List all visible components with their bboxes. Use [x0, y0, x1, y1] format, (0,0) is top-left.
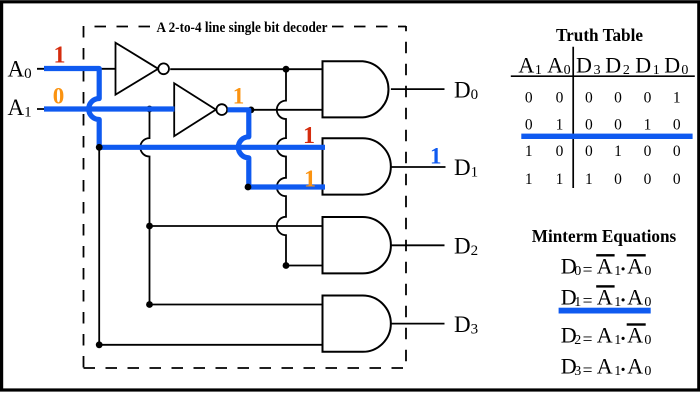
- wire D0 output: [391, 88, 445, 90]
- truth table row 2: [525, 117, 681, 134]
- AND gate G0 (D0): [323, 61, 389, 117]
- svg-text:D: D: [605, 53, 621, 78]
- svg-text:0: 0: [644, 143, 652, 160]
- blue wire: nA1 value path to D1 bottom input: [228, 110, 326, 187]
- truth table row 2 blue highlight bar: [521, 134, 692, 139]
- svg-text:0: 0: [556, 90, 564, 107]
- svg-text:A: A: [597, 285, 613, 310]
- wire A0 input: [37, 68, 116, 70]
- svg-text:A 2-to-4 line single bit decod: A 2-to-4 line single bit decoder: [157, 20, 328, 36]
- svg-text:0: 0: [525, 117, 533, 134]
- AND gate G1 (D1): [323, 138, 391, 194]
- truth table row 4: [525, 171, 681, 188]
- svg-text:1: 1: [54, 43, 66, 69]
- svg-text:1: 1: [304, 167, 316, 193]
- svg-text:1: 1: [556, 171, 564, 188]
- dashed enclosure box: [84, 26, 407, 368]
- svg-text:0: 0: [585, 143, 593, 160]
- svg-text:1: 1: [585, 171, 593, 188]
- inverter U2 (NOT gate on A1): [174, 83, 227, 136]
- svg-text:0: 0: [556, 143, 564, 160]
- svg-text:0: 0: [644, 364, 651, 379]
- svg-text:0: 0: [614, 171, 622, 188]
- svg-text:A: A: [547, 53, 563, 78]
- svg-text:0: 0: [574, 264, 581, 279]
- svg-text:1: 1: [303, 123, 315, 149]
- wire A1 rail vertical with hop: [140, 109, 322, 305]
- svg-text:0: 0: [673, 117, 681, 134]
- svg-text:0: 0: [644, 333, 651, 348]
- svg-text:Minterm Equations: Minterm Equations: [532, 226, 677, 246]
- svg-text:0: 0: [673, 143, 681, 160]
- svg-text:·: ·: [620, 328, 627, 350]
- svg-text:0: 0: [673, 171, 681, 188]
- wire A1 input: [37, 108, 174, 110]
- svg-text:1: 1: [556, 117, 564, 134]
- svg-text:A: A: [627, 285, 643, 310]
- svg-text:1: 1: [673, 90, 681, 107]
- svg-text:3: 3: [574, 364, 581, 379]
- svg-text:2: 2: [574, 333, 581, 348]
- junction dot under blue on A1 line: [146, 106, 153, 113]
- svg-text:0: 0: [614, 90, 622, 107]
- svg-text:1: 1: [614, 143, 622, 160]
- svg-text:=: =: [583, 329, 593, 349]
- truth table row 1: [525, 90, 681, 107]
- equation D0 = nA1 . nA0: [561, 253, 652, 280]
- svg-text:1: 1: [525, 171, 533, 188]
- svg-text:0: 0: [644, 90, 652, 107]
- junction dot A0 rail bottom corner: [96, 341, 103, 348]
- svg-text:=: =: [583, 360, 593, 380]
- wire NOT1 output (nA0 row): [170, 68, 322, 70]
- wire A1 to D2 top input: [150, 225, 323, 227]
- blue wire: A1 input segment: [44, 106, 175, 111]
- svg-text:=: =: [583, 260, 593, 280]
- svg-text:0: 0: [644, 264, 651, 279]
- junction dot under blue on nA1 line: [248, 107, 255, 114]
- junction dot at nA1 rail corner: [245, 184, 252, 191]
- svg-text:0: 0: [585, 90, 593, 107]
- svg-text:1: 1: [233, 84, 245, 109]
- equation D1 = nA1 . A0: [561, 285, 652, 312]
- svg-text:1: 1: [644, 117, 652, 134]
- svg-text:0: 0: [585, 117, 593, 134]
- truth table row 3: [525, 143, 681, 160]
- svg-text:A: A: [518, 53, 534, 78]
- svg-text:1: 1: [525, 143, 533, 160]
- equation D3 = A1 . A0: [561, 354, 652, 381]
- junction dot at A0 rail corner: [96, 144, 103, 151]
- junction dot nA0 rail bottom corner: [283, 262, 290, 269]
- svg-text:0: 0: [53, 83, 65, 108]
- svg-text:A: A: [597, 253, 613, 278]
- wire D1 output: [391, 166, 446, 168]
- inverter U1 (NOT gate on A0): [116, 43, 170, 95]
- wire NOT2 output (nA1 row): [228, 109, 323, 111]
- svg-text:A: A: [627, 253, 643, 278]
- svg-text:0: 0: [525, 90, 533, 107]
- junction dot A1/D2 branch: [146, 223, 153, 230]
- svg-text:A: A: [627, 354, 643, 379]
- junction dot A1 rail bottom corner: [146, 301, 153, 308]
- svg-text:D: D: [576, 53, 592, 78]
- blue underline under equation D1: [559, 308, 651, 314]
- equation D2 = A1 . nA0: [561, 323, 652, 350]
- truth table column divider: [572, 47, 574, 188]
- svg-text:A: A: [627, 323, 643, 348]
- svg-text:0: 0: [614, 117, 622, 134]
- AND gate G3 (D3): [323, 296, 391, 352]
- blue wire: A0 value path to D1 top input: [44, 69, 325, 148]
- wire A0 rail vertical: [99, 147, 322, 344]
- svg-text:Truth Table: Truth Table: [556, 25, 643, 45]
- wire nA0 rail vertical with hops: [277, 69, 323, 265]
- svg-text:1: 1: [430, 143, 442, 168]
- junction dot on nA0 line: [283, 66, 290, 73]
- wire D3 output: [391, 323, 445, 325]
- svg-text:A: A: [597, 354, 613, 379]
- wire D2 output: [391, 244, 445, 246]
- svg-text:D: D: [635, 53, 651, 78]
- svg-text:·: ·: [620, 259, 627, 281]
- truth table header underline: [511, 75, 695, 77]
- svg-text:·: ·: [620, 359, 627, 381]
- svg-text:D: D: [664, 53, 680, 78]
- svg-text:A: A: [597, 323, 613, 348]
- svg-text:0: 0: [644, 171, 652, 188]
- AND gate G2 (D2): [323, 217, 391, 273]
